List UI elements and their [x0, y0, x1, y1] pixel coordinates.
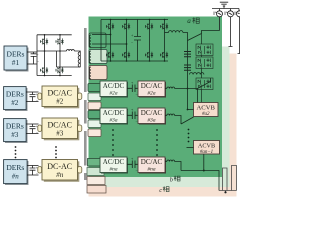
svg-text:#3: #3	[56, 129, 64, 137]
transformer T1 primary	[78, 52, 80, 67]
wire row3 out	[175, 116, 181, 125]
row3: DERs #3 box	[4, 119, 28, 143]
wire grid drop c	[238, 17, 241, 54]
node acvb drop	[203, 170, 205, 172]
wire to transformer primary	[74, 50, 80, 53]
ground	[220, 2, 228, 8]
AC/DC #na box	[100, 157, 128, 174]
svg-text:AC/DC: AC/DC	[103, 158, 125, 166]
row n: DERs #n box	[4, 160, 29, 185]
inductor L1	[67, 50, 75, 52]
wire ACVB a2 left	[188, 109, 194, 111]
rown tab b	[88, 159, 104, 167]
inductor La	[169, 31, 183, 33]
wire secondary to bridge bottom	[92, 43, 127, 45]
DC-AC #n box	[38, 160, 82, 182]
submodule cluster 2	[196, 57, 213, 69]
node bridge1 leg1	[44, 50, 46, 52]
label usc	[235, 12, 237, 16]
node row2 bus	[187, 88, 189, 90]
ellipsis DERs column	[15, 146, 17, 158]
wire to grid node	[202, 31, 220, 34]
row2 tab b	[88, 84, 101, 92]
rown tab mid	[87, 168, 104, 176]
svg-text:#n: #n	[12, 173, 20, 181]
dc-link capacitor	[134, 20, 141, 62]
row3 tab c	[88, 129, 101, 137]
igbt U1a	[107, 23, 115, 29]
svg-text:DC/AC: DC/AC	[47, 120, 71, 129]
svg-text:#1: #1	[12, 58, 20, 67]
wire ACVB an-1 left	[187, 147, 194, 149]
chain connector	[201, 34, 203, 103]
phase-b panel	[89, 47, 230, 188]
transformer b copy box	[89, 50, 107, 64]
wire tap vertical	[56, 51, 58, 67]
svg-text:#an−1: #an−1	[200, 150, 213, 155]
label usb	[225, 12, 227, 16]
svg-text:DC/AC: DC/AC	[141, 109, 163, 117]
AC/DC #3a box	[100, 108, 128, 125]
svg-text:DC-AC: DC-AC	[47, 162, 72, 171]
node N	[224, 191, 226, 193]
wire to switch	[183, 33, 188, 41]
svg-text:#a2: #a2	[202, 112, 210, 117]
svg-text:DC/AC: DC/AC	[47, 88, 71, 97]
inductor L3a	[165, 115, 167, 117]
svg-text:#n: #n	[56, 171, 64, 179]
H-bridge 1 rails	[37, 35, 72, 76]
svg-text:ACVB: ACVB	[198, 142, 215, 149]
igbt Q3	[41, 67, 49, 73]
DC/AC #2a box	[138, 81, 166, 98]
wire DERs1 bottom	[27, 63, 37, 65]
label c-phase	[159, 186, 169, 194]
svg-text:DERs: DERs	[6, 163, 24, 172]
isolation gray bar	[84, 28, 87, 180]
AC/DC #2a box	[100, 81, 128, 98]
wire rown bottom	[27, 174, 38, 176]
wire row3 top	[26, 123, 38, 125]
wire acvb bottom drop	[203, 154, 205, 171]
label b-phase	[170, 176, 180, 184]
switch S2 blade	[198, 78, 211, 89]
svg-text:#3: #3	[11, 131, 19, 139]
ellipsis DC/AC column	[55, 146, 57, 158]
igbt Q4	[56, 67, 64, 73]
triple-bar sub1	[184, 52, 191, 57]
igbt U1c	[107, 52, 115, 58]
svg-text:#na: #na	[109, 167, 117, 173]
dc-link cap row3	[127, 112, 138, 120]
igbt U2a	[146, 23, 154, 29]
bracket inner	[223, 168, 228, 191]
bottom bus wire	[181, 171, 219, 191]
svg-text:#3a: #3a	[109, 118, 117, 124]
DC/AC #na box	[138, 157, 166, 174]
wire DERs1 top	[27, 51, 37, 53]
node leg2	[126, 43, 128, 45]
arm inductor coil	[190, 73, 204, 75]
igbt Q2	[56, 38, 64, 44]
svg-text:#2a: #2a	[109, 91, 117, 97]
wire to ACVB top	[197, 89, 199, 103]
rown tab c1	[87, 177, 105, 185]
DC/AC #3 box	[38, 118, 82, 140]
wire bridge1 low output	[57, 66, 81, 68]
row3 tab mid	[88, 120, 101, 128]
wire grid drop b	[229, 17, 233, 47]
switch S3 blade	[181, 117, 194, 124]
svg-text:#3a: #3a	[147, 118, 155, 124]
wire bridge out	[165, 32, 169, 34]
capacitor Cn shunt	[30, 166, 36, 176]
node bridge1 leg2	[59, 50, 61, 52]
wire row2 top	[26, 91, 38, 93]
igbt U1d	[123, 52, 131, 58]
DC/AC #3a box	[138, 108, 166, 125]
wire bridge1 mid	[37, 50, 67, 52]
submodule cluster 1	[196, 44, 213, 56]
wire row2 bottom	[26, 101, 38, 103]
svg-text:AC/DC: AC/DC	[103, 82, 125, 90]
igbt U2b	[161, 23, 169, 29]
wire rown out	[175, 162, 181, 171]
node bus a2	[187, 109, 189, 111]
source Va	[217, 9, 223, 17]
wire rown top	[27, 165, 38, 167]
inductor L2a	[165, 88, 167, 90]
source Vb	[228, 9, 234, 17]
svg-text:#2a: #2a	[147, 91, 155, 97]
wire secondary to bridge top	[92, 34, 111, 36]
svg-text:#na: #na	[147, 167, 155, 173]
wire grid drop a	[219, 17, 221, 31]
dc-link cap rown	[127, 161, 138, 169]
ellipsis green col1	[112, 129, 114, 156]
submodule cluster 3	[196, 78, 213, 90]
source Vc	[237, 9, 243, 17]
capacitor C3 shunt	[30, 124, 36, 134]
svg-text:a: a	[187, 17, 191, 25]
node rail dots bridge1	[44, 34, 61, 76]
bus left chain	[187, 41, 189, 110]
capacitor C1 shunt	[31, 52, 37, 64]
grid bus	[212, 8, 239, 10]
node rail dots green bridge	[110, 19, 166, 62]
bracket outer	[232, 166, 237, 191]
DC/AC #2 box	[38, 86, 82, 108]
capacitor C2 shunt	[30, 92, 36, 102]
ellipsis chain	[188, 129, 190, 143]
svg-text:AC/DC: AC/DC	[103, 109, 125, 117]
svg-text:DC/AC: DC/AC	[141, 82, 163, 90]
row3 tab b	[88, 111, 101, 119]
svg-text:DC/AC: DC/AC	[141, 158, 163, 166]
row2 tab mid	[88, 93, 101, 101]
green bridge rails	[101, 20, 168, 62]
ellipsis green col2	[156, 129, 158, 156]
phase-c panel	[89, 54, 237, 197]
wire row2 out	[175, 88, 198, 90]
svg-text:DERs: DERs	[6, 90, 24, 99]
rown tab c2	[87, 186, 106, 194]
label usa	[214, 12, 216, 16]
igbt Q1	[41, 38, 49, 44]
igbt U2d	[161, 52, 169, 58]
row2 tab c	[88, 102, 101, 110]
svg-text:ACVB: ACVB	[197, 105, 216, 112]
inductor Lna	[165, 161, 167, 163]
svg-text:c: c	[159, 187, 162, 194]
svg-text:DERs: DERs	[6, 122, 24, 131]
igbt U2c	[146, 52, 154, 58]
wire row3 bottom	[26, 133, 38, 135]
svg-text:#2: #2	[56, 97, 64, 105]
switch Sa blade	[188, 34, 202, 41]
transformer c copy box	[89, 66, 107, 80]
row2: DERs #2 box	[4, 87, 28, 111]
ACVB #an-1 box	[194, 141, 220, 156]
label a-phase	[187, 17, 199, 25]
DERs #1 box	[4, 46, 29, 72]
phase-a panel	[89, 17, 223, 178]
triple-bar sub2	[184, 65, 191, 70]
igbt U1b	[123, 23, 131, 29]
dc-link cap row2	[127, 85, 138, 93]
svg-text:#2: #2	[11, 99, 19, 107]
ACVB #a2 box	[194, 103, 219, 118]
node leg1	[110, 34, 112, 36]
bracket bottom	[219, 191, 237, 193]
transformer T1 secondary box	[89, 33, 106, 48]
